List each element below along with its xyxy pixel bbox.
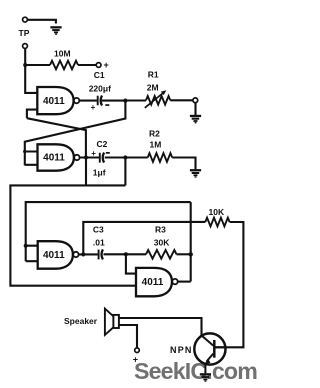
wire C3 to R3 bbox=[104, 253, 147, 255]
wire R1 to terminal bbox=[170, 99, 193, 101]
wire gate1 input B stub bbox=[27, 110, 37, 119]
wire C3 node down to gate4 upper input bbox=[126, 254, 136, 273]
junction C2/R2 node bbox=[123, 155, 127, 159]
wire gate3out loop up to 10K bbox=[83, 222, 205, 255]
wire C2 node down to outer loop corner bbox=[124, 158, 126, 186]
svg-text:R3: R3 bbox=[155, 225, 166, 235]
wire gate2out down to outer loop bbox=[85, 158, 87, 186]
capacitor C1 220uF bbox=[89, 70, 111, 112]
svg-text:+: + bbox=[91, 103, 96, 112]
wire gate3 output bbox=[79, 253, 98, 255]
nand gate U3 4011 bbox=[38, 241, 79, 269]
junction C3 node to gate4 input bbox=[124, 252, 128, 256]
svg-text:NPN: NPN bbox=[170, 345, 193, 355]
svg-text:R1: R1 bbox=[148, 70, 159, 80]
svg-text:TP: TP bbox=[19, 28, 30, 38]
wire D1: gate1 inB to gate2 output bbox=[27, 118, 86, 157]
resistor R2 1M bbox=[148, 129, 173, 162]
svg-text:1M: 1M bbox=[150, 140, 162, 150]
resistor 10M bbox=[25, 64, 50, 66]
wire speaker lower to battery terminal bbox=[119, 325, 137, 348]
junction rail/10M bbox=[23, 63, 27, 67]
svg-text:C1: C1 bbox=[94, 70, 105, 80]
wire D2: node down-diagonal to gate2 inputs strap bbox=[25, 101, 126, 166]
wire node to R2 bbox=[125, 156, 147, 158]
nand gate U4 4011 bbox=[136, 268, 178, 296]
svg-text:220μf: 220μf bbox=[89, 84, 111, 94]
wire C2 to node bbox=[105, 156, 125, 158]
svg-text:2M: 2M bbox=[147, 82, 159, 92]
wire node to R1 bbox=[125, 99, 146, 101]
resistor R3 30K bbox=[146, 225, 177, 259]
terminal TP (upper) bbox=[23, 17, 28, 22]
junction gate2 input strap bbox=[23, 150, 26, 153]
ground G4 (emitter) bbox=[200, 373, 211, 382]
svg-text:+: + bbox=[104, 60, 109, 70]
resistor 10K bbox=[205, 207, 229, 226]
svg-text:R2: R2 bbox=[149, 129, 160, 139]
wire inner loop right edge bbox=[190, 202, 192, 281]
svg-text:C2: C2 bbox=[97, 139, 108, 149]
svg-text:4011: 4011 bbox=[43, 96, 65, 107]
junction C1/R1 node bbox=[123, 99, 127, 103]
svg-text:4011: 4011 bbox=[142, 277, 164, 288]
wire R2 to ground bbox=[172, 158, 195, 170]
junction gate3 upper input bbox=[24, 244, 28, 248]
wire 10K to transistor base bbox=[215, 222, 243, 347]
terminal R1 right bbox=[193, 98, 198, 103]
terminal 10M right bbox=[96, 63, 101, 68]
ground G1 bbox=[50, 26, 61, 35]
svg-text:10K: 10K bbox=[209, 207, 225, 217]
wire C1 to junction bbox=[102, 100, 125, 102]
wire outer loop (gate2 out to gate4 lower input) bbox=[10, 185, 136, 285]
wire TP to ground bbox=[27, 20, 56, 24]
svg-text:4011: 4011 bbox=[43, 250, 65, 261]
svg-text:+: + bbox=[133, 355, 138, 365]
junction R3/right edge bbox=[189, 252, 193, 256]
terminal TP (lower) bbox=[23, 44, 28, 49]
wire R3 to inner right edge bbox=[177, 253, 191, 255]
nand gate U1 4011 bbox=[37, 87, 79, 114]
ground G2 bbox=[190, 115, 201, 124]
wire rail to gate1 input A bbox=[25, 48, 37, 93]
svg-text:1μf: 1μf bbox=[93, 168, 106, 178]
svg-text:.01: .01 bbox=[93, 238, 105, 248]
capacitor C3 .01 bbox=[93, 225, 105, 260]
nand gate U2 4011 bbox=[38, 144, 80, 170]
wire gate2 input stubs bbox=[25, 152, 38, 165]
junction gate3 output bbox=[81, 252, 85, 256]
ground G3 bbox=[190, 169, 201, 178]
speaker LS1 bbox=[64, 309, 119, 335]
svg-text:10M: 10M bbox=[54, 49, 71, 59]
svg-text:SeekIC.com: SeekIC.com bbox=[134, 358, 257, 384]
wire gate2 output bbox=[80, 156, 99, 158]
capacitor C2 1uF bbox=[91, 139, 110, 178]
wire gate3 input stubs bbox=[26, 246, 38, 262]
svg-text:+: + bbox=[91, 149, 96, 158]
svg-text:Speaker: Speaker bbox=[64, 316, 98, 326]
transistor Q1 NPN bbox=[170, 333, 226, 373]
terminal battery + bbox=[135, 348, 140, 353]
svg-text:4011: 4011 bbox=[43, 153, 65, 164]
svg-text:30K: 30K bbox=[154, 238, 170, 248]
wire inner loop top/left (gate3 inputs) bbox=[26, 202, 191, 261]
wire speaker upper to collector bbox=[119, 318, 202, 336]
wire terminal down bbox=[194, 103, 196, 115]
junction gate2out/feedback bbox=[84, 155, 88, 159]
wire gate1 output to C1 bbox=[79, 100, 97, 102]
svg-text:C3: C3 bbox=[93, 225, 104, 235]
wire gate4 output up to node bbox=[178, 281, 191, 283]
resistor R1 2M (pot) bbox=[145, 70, 171, 108]
